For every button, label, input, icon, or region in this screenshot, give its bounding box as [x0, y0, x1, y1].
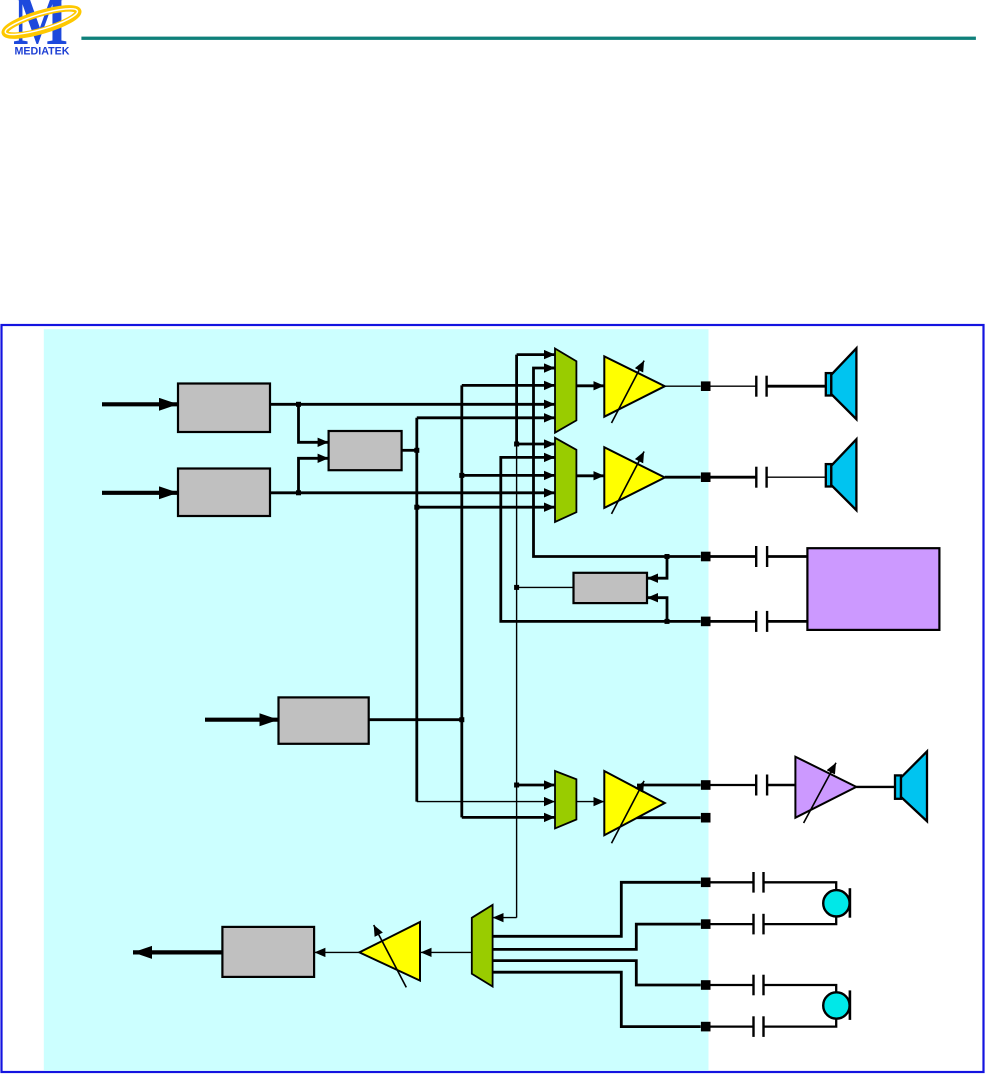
speaker LS2	[826, 439, 857, 510]
wire amp A3 top output to pad P5	[637, 784, 701, 787]
wire amp A1 output to pad P1	[665, 385, 701, 387]
wire vertical bus of mixer net	[415, 418, 418, 802]
node J4 mixer net tap	[414, 505, 419, 510]
wire voice net to mux M1 input3	[462, 384, 555, 387]
mux M2	[555, 438, 576, 522]
arrowhead M2 input2	[544, 456, 555, 459]
block sidetone buffer	[574, 573, 648, 603]
wire amp A3 bottom output to pad P6	[630, 816, 701, 819]
wire headphone amp to speaker HP1	[856, 786, 895, 788]
pad P1	[701, 381, 711, 391]
capacitor C8	[754, 975, 764, 996]
wire cap C5 to headphone amp	[767, 784, 795, 786]
pad P3	[701, 552, 711, 562]
arrowhead M1 input2	[544, 367, 555, 370]
pad P6	[701, 813, 711, 823]
wire sidetone net to mux M2 input1	[517, 443, 555, 446]
wire pad P7 to cap C6	[710, 881, 753, 883]
wire DAC L output to mux M1 input4	[270, 403, 555, 406]
wire cap C3 to earpiece	[767, 555, 807, 558]
wire mic1 plus routing to mux M4 input1	[493, 882, 701, 936]
capacitor C4	[756, 611, 767, 632]
wire cap C7 to mic1 bottom	[764, 916, 837, 924]
amp A3	[604, 771, 665, 835]
wire pad P4 to cap C4	[710, 620, 756, 623]
wire voice net to mux M2 input3	[462, 474, 555, 477]
wire earpiece N line to mux M2 input2	[501, 457, 701, 621]
node J1 on DAC L output	[296, 402, 301, 407]
pad P7	[701, 878, 711, 888]
wire branch J2 to mixer input2	[299, 458, 329, 493]
wire pad P5 to cap C5	[710, 784, 756, 786]
capacitor C1	[756, 376, 766, 397]
wire sidetone net into mux M4	[493, 917, 517, 919]
pad P8	[701, 919, 711, 929]
wire mic2 plus routing to mux M4 input3	[493, 961, 701, 985]
mux M4	[472, 905, 493, 987]
headphone speaker HP1	[895, 751, 927, 821]
wire mux M3 output to amp A3	[576, 801, 604, 803]
amp A3 gain arrow	[612, 781, 645, 843]
capacitor C3	[756, 546, 767, 567]
node J9 sidetone tap	[514, 783, 519, 788]
wire amp A2 output to pad P2	[665, 476, 701, 479]
node J5 voice net tap	[459, 473, 464, 478]
node J10 on earpiece P	[665, 554, 670, 559]
block DAC L	[178, 384, 270, 433]
wire sidetone net to mux M3 input1	[517, 784, 555, 787]
amp A4 gain arrow	[374, 925, 407, 987]
wire cap C4 to earpiece	[767, 620, 807, 623]
wire pad P3 to cap C3	[710, 555, 756, 558]
svg-text:MEDIATEK: MEDIATEK	[15, 45, 71, 57]
wire pad P1 to cap C1	[710, 385, 756, 387]
amp A4	[359, 922, 420, 981]
capacitor C7	[754, 914, 764, 935]
wire mux M1 output to amp A1	[576, 384, 604, 387]
earpiece receiver	[807, 548, 939, 630]
wire mixer net to mux M3 input2	[417, 801, 555, 803]
wire sidetone net to mux M1 input1	[517, 353, 555, 356]
wire pad P10 to cap C9	[710, 1025, 753, 1027]
wire DAC R output to mux M2 input4	[270, 491, 555, 494]
wire voice net to mux M3 input3	[462, 816, 555, 819]
microphone MIC1	[823, 888, 850, 918]
node J11 on earpiece N	[665, 619, 670, 624]
block DAC R	[178, 469, 270, 517]
wire branch J1 to mixer input1	[299, 404, 329, 442]
pad P9	[701, 980, 711, 990]
block ADC	[222, 927, 314, 977]
pad P10	[701, 1022, 711, 1032]
wire vertical bus of sidetone net lower	[516, 444, 518, 918]
headphone amp A5	[795, 757, 856, 818]
pad P4	[701, 617, 711, 627]
wire voice DAC output to bus	[369, 718, 462, 721]
amp A2 gain arrow	[612, 452, 645, 514]
wire cap C1 to speaker LS1	[767, 385, 826, 388]
wire pad P2 to cap C2	[710, 476, 756, 479]
amp A1 gain arrow	[612, 361, 645, 423]
wire mux M2 output to amp A2	[576, 474, 604, 477]
node J3 mixer output joins bus	[414, 448, 419, 453]
mux M3	[555, 771, 576, 828]
pad P5	[701, 780, 711, 790]
wire mixer output to vertical bus	[402, 449, 417, 452]
node J2 on DAC R output	[296, 490, 301, 495]
headphone amp gain arrow	[804, 763, 836, 823]
block voice DAC	[279, 697, 369, 743]
wire cap C2 to speaker LS2	[767, 476, 826, 478]
node J7 sidetone tap	[514, 442, 519, 447]
amp A1	[604, 356, 665, 416]
wire earpiece P line to mux M1 input2	[534, 368, 701, 557]
wire mux M4 output to amp A4	[421, 951, 472, 953]
wire pad P8 to cap C7	[710, 923, 753, 925]
node J6 voice DAC joins bus	[459, 717, 464, 722]
wire cap C6 to mic1 top	[764, 882, 837, 890]
wire output arrow from ADC	[133, 950, 222, 954]
cyan chip region	[44, 329, 709, 1071]
diagram outer frame	[2, 325, 984, 1072]
wire mixer net to mux M2 input5	[417, 506, 555, 509]
capacitor C2	[756, 467, 766, 488]
wire sidetone net to buffer input	[517, 586, 575, 588]
amp A2	[604, 447, 665, 508]
wire mic2 minus routing to mux M4 input4	[493, 972, 701, 1026]
wire vertical bus of sidetone net upper	[515, 355, 518, 444]
capacitor C6	[754, 872, 764, 893]
wire J10 to buffer top input	[647, 557, 667, 579]
speaker LS1	[826, 348, 857, 419]
wire cap C8 to mic2 top	[764, 985, 837, 993]
capacitor C9	[754, 1016, 764, 1037]
capacitor C5	[756, 775, 767, 796]
MediaTek logo swoosh	[2, 3, 80, 41]
node J8 sidetone tap at buffer	[514, 585, 519, 590]
wire pad P9 to cap C8	[710, 984, 753, 986]
block mixer	[329, 431, 402, 470]
teal header rule	[81, 37, 976, 40]
microphone MIC2	[823, 990, 850, 1020]
wire amp A4 output to ADC	[314, 951, 359, 953]
wire J11 to buffer bottom input	[647, 598, 667, 622]
wire input arrow into voice DAC	[205, 718, 279, 722]
wire input arrow into DAC L	[102, 402, 178, 406]
wire vertical bus of voice DAC net	[460, 385, 463, 817]
wire cap C9 to mic2 bottom	[764, 1018, 837, 1026]
wire mic1 minus routing to mux M4 input2	[493, 924, 701, 949]
wire input arrow into DAC R	[102, 491, 178, 495]
wire mixer net to mux M1 input5	[417, 416, 555, 419]
mux M1	[555, 349, 576, 433]
pad P2	[701, 472, 711, 482]
